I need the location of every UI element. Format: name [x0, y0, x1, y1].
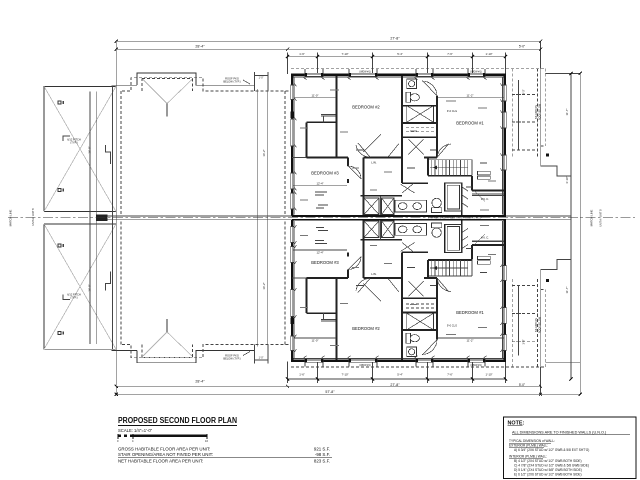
deck edge line 1 [256, 89, 258, 218]
door swing bedroom2 [356, 143, 370, 157]
window dim ticks above [348, 69, 350, 73]
wall shower north [444, 182, 463, 184]
wall bedroom2 west [336, 76, 338, 158]
door swing wic [474, 191, 485, 202]
wall linen south [402, 136, 437, 138]
vanity counter [395, 200, 426, 212]
svg-text:1'-10": 1'-10" [485, 372, 492, 376]
svg-text:NET HABITABLE FLOOR AREA PER U: NET HABITABLE FLOOR AREA PER UNIT: [118, 458, 203, 463]
svg-text:(WDW #1): (WDW #1) [359, 70, 370, 73]
window in left wall [291, 193, 294, 209]
svg-text:57'-8": 57'-8" [325, 390, 335, 394]
wall hall south [402, 182, 428, 184]
dim tick [505, 53, 507, 75]
dim tick [287, 53, 289, 75]
garage roof diagonal 1 [44, 86, 116, 211]
svg-text:BELOW (TYP.): BELOW (TYP.) [223, 357, 240, 361]
svg-text:MATCH LINE: MATCH LINE [9, 210, 13, 227]
toilet 2 bowl [432, 198, 441, 207]
svg-text:7'-10": 7'-10" [341, 52, 348, 56]
dimension line overall top [116, 40, 540, 42]
svg-text:UNIT A / UNIT B: UNIT A / UNIT B [32, 208, 35, 226]
door swing bath2 [402, 184, 414, 194]
washer [364, 198, 379, 215]
dim tick [516, 93, 521, 95]
svg-text:5/8 GWB ON: 5/8 GWB ON [535, 318, 538, 332]
right dim line inner [570, 73, 572, 379]
svg-text:5'-4": 5'-4" [397, 372, 403, 376]
window in right wall [503, 85, 506, 101]
svg-text:7'-6": 7'-6" [447, 372, 453, 376]
gutter bracket symbol [106, 145, 111, 164]
wall stair side segment [424, 157, 437, 159]
party wall double line [292, 215, 506, 217]
dashed roof box rail 1 [512, 93, 537, 95]
svg-text:5'-0": 5'-0" [519, 383, 525, 387]
dashed eave right run [291, 68, 546, 70]
dim tick [317, 53, 319, 75]
deck edge line 2 [267, 89, 269, 218]
svg-text:(WDW #1): (WDW #1) [359, 364, 370, 367]
svg-text:LIN.: LIN. [371, 160, 377, 164]
top exterior wall segments [291, 74, 305, 77]
wall laundry north [361, 195, 403, 197]
window in left wall [291, 85, 294, 100]
wall bedroom3 east stub [347, 179, 349, 183]
window in left wall [291, 119, 294, 146]
party wall end block [96, 215, 107, 221]
dimension slash ticks [115, 40, 542, 59]
wall bedroom3 north [307, 157, 349, 159]
svg-text:11'-0": 11'-0" [312, 338, 319, 342]
garage roof outline [44, 86, 116, 211]
svg-text:TYPICAL DIMENSION of WALL:: TYPICAL DIMENSION of WALL: [509, 439, 555, 443]
door swing bath1 [422, 81, 437, 96]
svg-text:1'-10": 1'-10" [485, 52, 492, 56]
scale bar [118, 435, 207, 438]
window in left wall [291, 173, 294, 189]
svg-text:11'-0": 11'-0" [312, 94, 319, 98]
dashed roof box left [511, 69, 513, 158]
svg-text:(WDW #1): (WDW #1) [470, 364, 481, 367]
svg-text:B) 4 1/2" (2X4 STUD w/ 1/2" GW: B) 4 1/2" (2X4 STUD w/ 1/2" GWB BOTH SID… [514, 459, 582, 463]
shelf unit b [478, 176, 491, 179]
svg-text:12'-4": 12'-4" [316, 250, 323, 254]
dim extension x116 full [115, 41, 117, 394]
overhang dim ticks [254, 72, 256, 91]
svg-text:E) 6 1/2" (2X6 STUD w/ 1/2" GW: E) 6 1/2" (2X6 STUD w/ 1/2" GWB BOTH SID… [514, 472, 582, 476]
wall dim tick marks texture [295, 78, 503, 211]
svg-text:-98 S.F.: -98 S.F. [315, 452, 330, 457]
window dim ticks above [415, 69, 417, 73]
svg-text:D) 5 1/4" (2X4 STUD w/ 5/8" GW: D) 5 1/4" (2X4 STUD w/ 5/8" GWB BOTH SID… [514, 468, 582, 472]
svg-text:W.I.C.: W.I.C. [481, 235, 489, 239]
wall bath south [402, 122, 437, 124]
mirrored lower unit [44, 218, 580, 396]
svg-text:28'-4": 28'-4" [195, 45, 205, 49]
svg-text:11'-7": 11'-7" [565, 287, 569, 294]
dim line bedroom1 [438, 97, 504, 99]
bath1 toilet [406, 92, 411, 102]
exterior wall inner face lines [294, 76, 505, 78]
dim tick [427, 53, 429, 75]
dim line bedroom2 [294, 97, 336, 99]
closet rod diagonal [409, 139, 424, 154]
svg-text:W.I.C.: W.I.C. [481, 197, 489, 201]
dimension line second top [116, 48, 540, 50]
svg-text:STAIR OPENING/AREA NOT FIN'ED: STAIR OPENING/AREA NOT FIN'ED PER UNIT: [118, 452, 213, 457]
svg-text:823 S.F.: 823 S.F. [314, 458, 330, 463]
svg-text:9'-0 CLG: 9'-0 CLG [447, 323, 457, 327]
wall laundry west [363, 158, 365, 216]
toilet 2 tank [432, 208, 442, 213]
wall wic north [472, 190, 505, 192]
entry roof bump outline [137, 73, 255, 85]
porch roof edge left of bump [112, 84, 138, 86]
svg-text:7'-6": 7'-6" [447, 52, 453, 56]
door swing bedroom1 [437, 144, 451, 158]
dashed eave vertical at house left [284, 91, 286, 216]
dim extension left [115, 41, 117, 86]
garage inner vertical 2 [96, 92, 98, 218]
ridge tick [166, 104, 168, 117]
wd divider [380, 196, 382, 215]
right dim line outer [579, 73, 581, 394]
svg-text:5'-0": 5'-0" [519, 45, 525, 49]
dimension line window ticks row [288, 56, 506, 58]
dashed eave right vertical [544, 69, 546, 146]
garage roof lower edge [44, 211, 116, 213]
dashed roof box rail 3 [512, 149, 537, 151]
window in top wall [349, 73, 377, 76]
shear panel block left wall [290, 111, 293, 118]
inner dim chain [518, 80, 520, 150]
svg-text:BEDROOM #1: BEDROOM #1 [456, 121, 484, 126]
roof pitch symbol lower [58, 189, 61, 192]
svg-text:UNIT A / UNIT B: UNIT A / UNIT B [600, 209, 603, 227]
roof pitch symbol upper [58, 101, 61, 104]
svg-text:SCALE: 1/4"=1'-0": SCALE: 1/4"=1'-0" [118, 428, 153, 433]
left exterior wall segments [291, 75, 294, 85]
svg-text:12'-4": 12'-4" [316, 182, 323, 186]
svg-text:ALL DIMENSIONS ARE TO FINI: ALL DIMENSIONS ARE TO FINISHED WALLS (U.… [512, 431, 607, 435]
wall bedroom3 door jamb [347, 158, 349, 167]
wall closet bedroom2 [307, 121, 337, 123]
wall bath west [401, 76, 403, 183]
svg-text:BEDROOM #3: BEDROOM #3 [311, 260, 339, 265]
svg-text:EXTERIOR (PLMB.) WALL:: EXTERIOR (PLMB.) WALL: [509, 444, 548, 448]
bifold chevrons [462, 187, 468, 207]
svg-text:1'-6": 1'-6" [299, 372, 305, 376]
svg-text:(TYP.): (TYP.) [70, 296, 77, 300]
stair treads [431, 160, 468, 176]
wall hall south segment [364, 157, 403, 159]
svg-text:1'-0": 1'-0" [259, 357, 264, 360]
svg-text:BEDROOM #3: BEDROOM #3 [311, 171, 339, 176]
svg-text:27'-8": 27'-8" [390, 37, 400, 41]
window in top wall [416, 73, 433, 76]
closet shelf double line [321, 114, 336, 116]
svg-text:BEDROOM #2: BEDROOM #2 [352, 326, 380, 331]
door swing laundry [400, 184, 414, 193]
svg-text:11'-2": 11'-2" [467, 338, 474, 342]
right wall inner face [501, 77, 503, 215]
svg-text:2 HR. RATED PARTY WALL FROM FO: 2 HR. RATED PARTY WALL FROM FOUND. TO RO… [428, 217, 483, 220]
svg-text:28'-4": 28'-4" [195, 380, 205, 384]
svg-text:9'-0 CLG: 9'-0 CLG [447, 109, 457, 113]
door swing bedroom3 [348, 166, 361, 179]
bottom overall dim line extension to right [541, 393, 581, 395]
svg-text:16'-0": 16'-0" [88, 284, 92, 291]
wall stair east lower [471, 176, 473, 191]
svg-text:A) 6 3/4" (2X6 STUD w/ 1/2" GW: A) 6 3/4" (2X6 STUD w/ 1/2" GWB & 5/8 EX… [514, 448, 589, 452]
window in right wall [503, 112, 506, 128]
wic shelf and rod [472, 193, 504, 195]
svg-text:ROOF BELOW: ROOF BELOW [539, 103, 542, 120]
dashed eave vertical deck west [120, 91, 122, 216]
garage inner vertical 1 [89, 92, 91, 218]
garage roof diagonal 2 [44, 86, 116, 211]
right exterior wall segments [503, 75, 506, 85]
stair outline [428, 159, 472, 161]
window dim ticks above [467, 69, 469, 73]
svg-text:C) 4 7/8" (2X4 STUD w/ 1/2" GW: C) 4 7/8" (2X4 STUD w/ 1/2" GWB & 5/8 GW… [514, 464, 589, 468]
svg-text:(WDW #1): (WDW #1) [470, 70, 481, 73]
svg-text:BELOW (TYP.): BELOW (TYP.) [223, 80, 240, 84]
svg-text:BEDROOM #2: BEDROOM #2 [352, 104, 380, 109]
svg-text:1'-6": 1'-6" [299, 52, 305, 56]
small square on step [546, 154, 549, 157]
svg-text:PROPOSED SECOND FLOOR PLAN: PROPOSED SECOND FLOOR PLAN [118, 415, 237, 425]
dashed roof box rail 2 [512, 121, 537, 123]
wall shower east [461, 183, 463, 216]
wall shower west [444, 183, 446, 211]
centerline dash-dot [8, 217, 635, 219]
party wall extension left [108, 215, 293, 217]
svg-text:BEDROOM #1: BEDROOM #1 [456, 310, 484, 315]
valley line left [143, 80, 167, 104]
party wall extension right [506, 215, 571, 217]
shelf unit a [478, 171, 491, 174]
svg-text:16'-0": 16'-0" [88, 146, 92, 153]
svg-text:LIN.: LIN. [371, 272, 377, 276]
svg-text:3'-0": 3'-0" [523, 89, 526, 94]
svg-text:3'-0": 3'-0" [523, 339, 526, 344]
dim extension right [540, 41, 542, 68]
misc leader marks hall [356, 150, 487, 187]
slash ticks right dim lines [115, 72, 582, 396]
svg-text:ROOF BELOW: ROOF BELOW [539, 316, 542, 333]
dim tick [516, 121, 521, 123]
window in right wall [503, 155, 506, 170]
note box [504, 417, 637, 479]
svg-text:GROSS HABITABLE FLOOR AREA PER: GROSS HABITABLE FLOOR AREA PER UNIT: [118, 447, 210, 452]
stair center rail and arrow [430, 167, 468, 169]
window in top wall [468, 73, 485, 76]
bath1 sink cabinet [407, 79, 417, 89]
right dim extension horizontal [545, 72, 580, 74]
window dim ticks above [304, 69, 306, 73]
dim tick [472, 53, 474, 75]
shower stall [445, 183, 461, 211]
garage right edge line [112, 86, 114, 349]
hall wall thin west stub [292, 157, 307, 159]
closet pole [323, 116, 325, 122]
pitch leader bracket [63, 136, 70, 141]
svg-text:11'-2": 11'-2" [467, 94, 474, 98]
svg-text:7'-10": 7'-10" [341, 372, 348, 376]
svg-text:5/8 GWB ON: 5/8 GWB ON [535, 105, 538, 119]
dim line bedroom3 [293, 185, 347, 187]
dashed jog [541, 145, 546, 147]
svg-text:5'-4": 5'-4" [397, 52, 403, 56]
dryer [382, 198, 395, 215]
valley line right [167, 80, 192, 104]
linen shelves dashed [406, 127, 434, 129]
small text dots texture upper [300, 90, 496, 210]
svg-text:3'-10": 3'-10" [565, 176, 569, 183]
svg-text:1'-0": 1'-0" [259, 76, 264, 79]
wall closet west [306, 122, 308, 157]
wall bath east [436, 96, 438, 158]
misc small text marks bedroom3 [315, 192, 328, 208]
svg-text:27'-8": 27'-8" [390, 383, 400, 387]
door swing hall closet [364, 134, 400, 157]
dim tick [372, 53, 374, 75]
svg-text:MATCH LINE: MATCH LINE [590, 210, 594, 227]
svg-text:921 S.F.: 921 S.F. [314, 447, 330, 452]
window in top wall [305, 73, 323, 76]
entry roof bump dashed inner [122, 78, 291, 91]
roof pkg below label leader [243, 80, 250, 84]
svg-text:INTERIOR (PLMB.) WALL:: INTERIOR (PLMB.) WALL: [509, 454, 547, 458]
svg-text:11'-7": 11'-7" [565, 109, 569, 116]
svg-text:16'-2": 16'-2" [262, 149, 266, 156]
tub with cross [407, 106, 434, 123]
wall tub north [402, 105, 437, 107]
svg-text:16'-2": 16'-2" [262, 282, 266, 289]
right roof-below outline step [541, 69, 571, 176]
svg-text:(TYP.): (TYP.) [70, 141, 77, 145]
shower inner [447, 185, 459, 209]
dashed roof box right [536, 69, 538, 158]
